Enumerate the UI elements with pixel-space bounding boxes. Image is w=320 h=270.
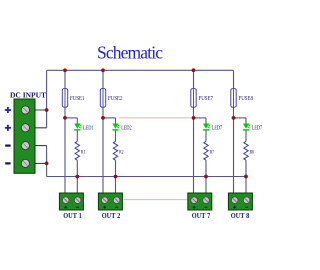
polarity + mark OUT1 xyxy=(64,206,67,209)
junction bottom bus ch7 xyxy=(204,175,208,179)
resistor R7 xyxy=(204,141,208,160)
junction top bus ch1 xyxy=(63,68,67,72)
svg-text:DC INPUT: DC INPUT xyxy=(10,91,46,100)
svg-text:LED7: LED7 xyxy=(252,125,263,131)
LED LED2 xyxy=(112,124,119,131)
wire bus to OUT8 pin2 xyxy=(245,177,247,201)
wire LED2 branch horizontal xyxy=(103,117,116,119)
wire bus to OUT7 pin2 xyxy=(205,177,207,201)
LED LED7 xyxy=(203,124,210,131)
svg-text:OUT 8: OUT 8 xyxy=(231,211,250,220)
terminal block DC INPUT xyxy=(14,99,35,173)
wire DC + pin1 xyxy=(27,109,47,111)
wire left - vertical xyxy=(46,146,48,177)
resistor R1 xyxy=(75,141,79,160)
wire LED8 branch horizontal xyxy=(234,117,247,119)
fuse FUSE8 xyxy=(231,89,236,108)
polarity - mark OUT7 xyxy=(205,206,208,208)
fuse FUSE1 xyxy=(62,89,67,108)
LED LED1 xyxy=(74,124,81,131)
pink continuation line top xyxy=(119,117,191,119)
polarity - mark OUT1 xyxy=(76,206,79,208)
polarity - mark OUT8 xyxy=(245,206,248,208)
label + pin2 xyxy=(5,125,11,131)
svg-text:LED1: LED1 xyxy=(83,125,94,131)
svg-text:R1: R1 xyxy=(81,150,86,156)
svg-text:R8: R8 xyxy=(250,150,255,156)
polarity + mark OUT8 xyxy=(233,206,236,209)
svg-text:FUSE7: FUSE7 xyxy=(199,96,214,102)
wire channel1 vertical xyxy=(64,70,66,200)
wire LED1 cathode to R1 xyxy=(76,130,78,141)
wire channel8 vertical xyxy=(233,70,235,200)
wire LED7 branch horizontal xyxy=(194,117,207,119)
junction bottom bus ch2 xyxy=(114,175,118,179)
junction below FUSE2 xyxy=(101,116,105,120)
wire LED8 cathode to R8 xyxy=(245,130,247,141)
label - pin3 xyxy=(5,145,10,147)
fuse FUSE7 xyxy=(191,89,196,108)
svg-text:Schematic: Schematic xyxy=(97,43,163,63)
junction top bus ch2 xyxy=(101,68,105,72)
svg-text:R7: R7 xyxy=(210,150,215,156)
LED LED8 xyxy=(243,124,250,131)
wire LED2 cathode to R2 xyxy=(115,130,117,141)
wire bottom - bus xyxy=(47,176,246,178)
wire R1 to bus xyxy=(76,160,78,176)
junction below FUSE7 xyxy=(192,116,196,120)
wire top + bus xyxy=(47,69,234,71)
terminal block OUT7 xyxy=(188,193,212,210)
wire LED1 branch horizontal xyxy=(65,117,77,119)
junction below FUSE1 xyxy=(63,116,67,120)
svg-text:R2: R2 xyxy=(119,150,124,156)
wire left + vertical xyxy=(46,70,48,128)
junction left column - xyxy=(45,162,49,166)
svg-text:FUSE8: FUSE8 xyxy=(239,96,254,102)
terminal block OUT1 xyxy=(59,193,83,210)
wire LED2 anode xyxy=(115,118,117,124)
svg-text:FUSE1: FUSE1 xyxy=(70,96,85,102)
svg-text:LED2: LED2 xyxy=(121,125,132,131)
wire LED7 anode xyxy=(205,118,207,124)
wire DC - pin4 xyxy=(27,162,47,164)
junction bottom bus ch8 xyxy=(244,175,248,179)
terminal block OUT2 xyxy=(98,193,122,210)
label + pin1 xyxy=(5,107,11,113)
wire channel7 vertical xyxy=(193,70,195,200)
wire R2 to bus xyxy=(115,160,117,176)
junction top bus ch7 xyxy=(192,68,196,72)
wire DC + pin2 xyxy=(27,127,47,129)
polarity - mark OUT2 xyxy=(115,206,118,208)
junction below FUSE8 xyxy=(232,116,236,120)
wire R8 to bus xyxy=(245,160,247,176)
svg-text:OUT 2: OUT 2 xyxy=(102,211,121,220)
wire channel2 vertical xyxy=(102,70,104,200)
junction left column + xyxy=(45,108,49,112)
svg-text:OUT 1: OUT 1 xyxy=(63,211,82,220)
wire DC - pin3 xyxy=(27,145,47,147)
resistor R8 xyxy=(244,141,248,160)
wire R7 to bus xyxy=(205,160,207,176)
svg-text:FUSE2: FUSE2 xyxy=(108,96,123,102)
wire LED8 anode xyxy=(245,118,247,124)
wire bus to OUT1 pin2 xyxy=(76,177,78,201)
resistor R2 xyxy=(113,141,117,160)
terminal block OUT8 xyxy=(228,193,252,210)
svg-text:LED7: LED7 xyxy=(212,125,223,131)
wire LED7 cathode to R7 xyxy=(205,130,207,141)
polarity + mark OUT2 xyxy=(103,206,106,209)
fuse FUSE2 xyxy=(100,89,105,108)
junction bottom bus ch1 xyxy=(75,175,79,179)
label - pin4 xyxy=(5,162,10,164)
polarity + mark OUT7 xyxy=(193,206,196,209)
pink continuation line bottom xyxy=(124,199,188,201)
wire bus to OUT2 pin2 xyxy=(115,177,117,201)
wire LED1 anode xyxy=(76,118,78,124)
svg-text:OUT 7: OUT 7 xyxy=(192,211,211,220)
